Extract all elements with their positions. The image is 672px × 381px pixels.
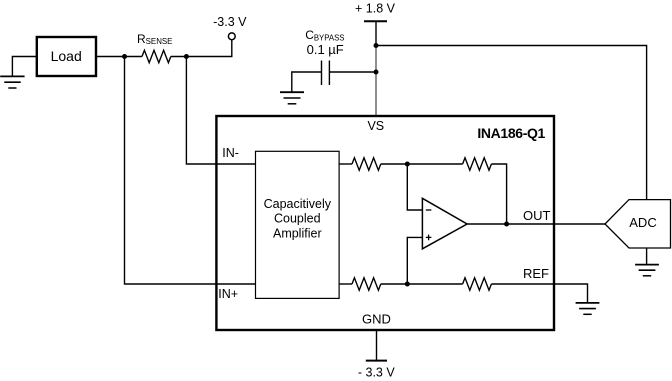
svg-text:GND: GND — [362, 311, 391, 326]
svg-text:IN-: IN- — [222, 146, 239, 160]
svg-text:Coupled: Coupled — [274, 212, 321, 226]
svg-text:REF: REF — [523, 266, 549, 281]
svg-text:ADC: ADC — [629, 215, 656, 230]
svg-text:-3.3 V: -3.3 V — [213, 15, 247, 29]
svg-text:OUT: OUT — [523, 208, 551, 223]
svg-text:0.1 µF: 0.1 µF — [307, 42, 344, 57]
svg-text:IN+: IN+ — [218, 287, 238, 301]
svg-text:Capacitively: Capacitively — [264, 197, 332, 211]
svg-text:INA186-Q1: INA186-Q1 — [477, 125, 545, 141]
svg-text:Load: Load — [51, 48, 82, 64]
svg-text:Amplifier: Amplifier — [273, 226, 322, 240]
svg-text:VS: VS — [367, 119, 384, 133]
svg-text:+ 1.8 V: + 1.8 V — [355, 2, 396, 16]
svg-text:- 3.3 V: - 3.3 V — [358, 366, 395, 380]
